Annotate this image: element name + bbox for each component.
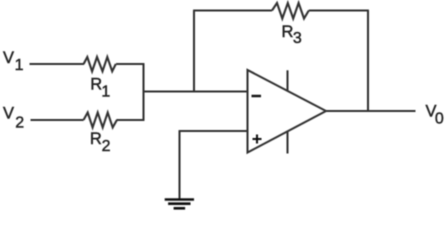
resistor R2	[84, 113, 117, 128]
op-amp U1 triangle	[248, 70, 327, 153]
R2 value label	[90, 130, 111, 155]
svg-text:1: 1	[101, 83, 110, 100]
wire feedback right vertical	[367, 11, 369, 112]
svg-text:R: R	[90, 130, 102, 148]
svg-text:V: V	[3, 105, 14, 123]
R3 value label	[282, 23, 302, 47]
op-amp positive supply pin	[286, 70, 288, 91]
resistor R1	[84, 57, 116, 71]
wire V2 to R2	[31, 119, 84, 121]
svg-text:V: V	[3, 49, 14, 67]
wire R1 to junction corner	[116, 63, 144, 65]
op-amp plus symbol	[253, 135, 262, 144]
wire feedback top right	[309, 9, 369, 11]
svg-text:3: 3	[293, 30, 302, 47]
svg-text:2: 2	[102, 138, 111, 155]
svg-text:0: 0	[435, 111, 444, 128]
svg-text:1: 1	[15, 57, 24, 74]
wire ground to non-inverting input	[180, 130, 249, 132]
wire ground vertical	[178, 130, 180, 199]
node V0 label	[426, 102, 444, 127]
wire node to inverting input	[144, 90, 249, 92]
wire feedback left vertical	[193, 11, 195, 92]
R1 value label	[90, 76, 110, 101]
wire output	[326, 110, 416, 112]
wire R2 to junction corner	[117, 119, 145, 121]
svg-text:2: 2	[15, 114, 24, 131]
wire V1 to R1	[30, 63, 85, 65]
op-amp minus symbol	[252, 95, 262, 97]
ground	[165, 200, 194, 209]
node V1 label	[3, 49, 24, 74]
op-amp negative supply pin	[286, 132, 288, 154]
wire feedback top left	[193, 9, 272, 11]
wire junction vertical	[142, 63, 144, 121]
node V2 label	[3, 105, 24, 132]
svg-text:R: R	[282, 23, 294, 41]
resistor R3	[272, 3, 309, 19]
